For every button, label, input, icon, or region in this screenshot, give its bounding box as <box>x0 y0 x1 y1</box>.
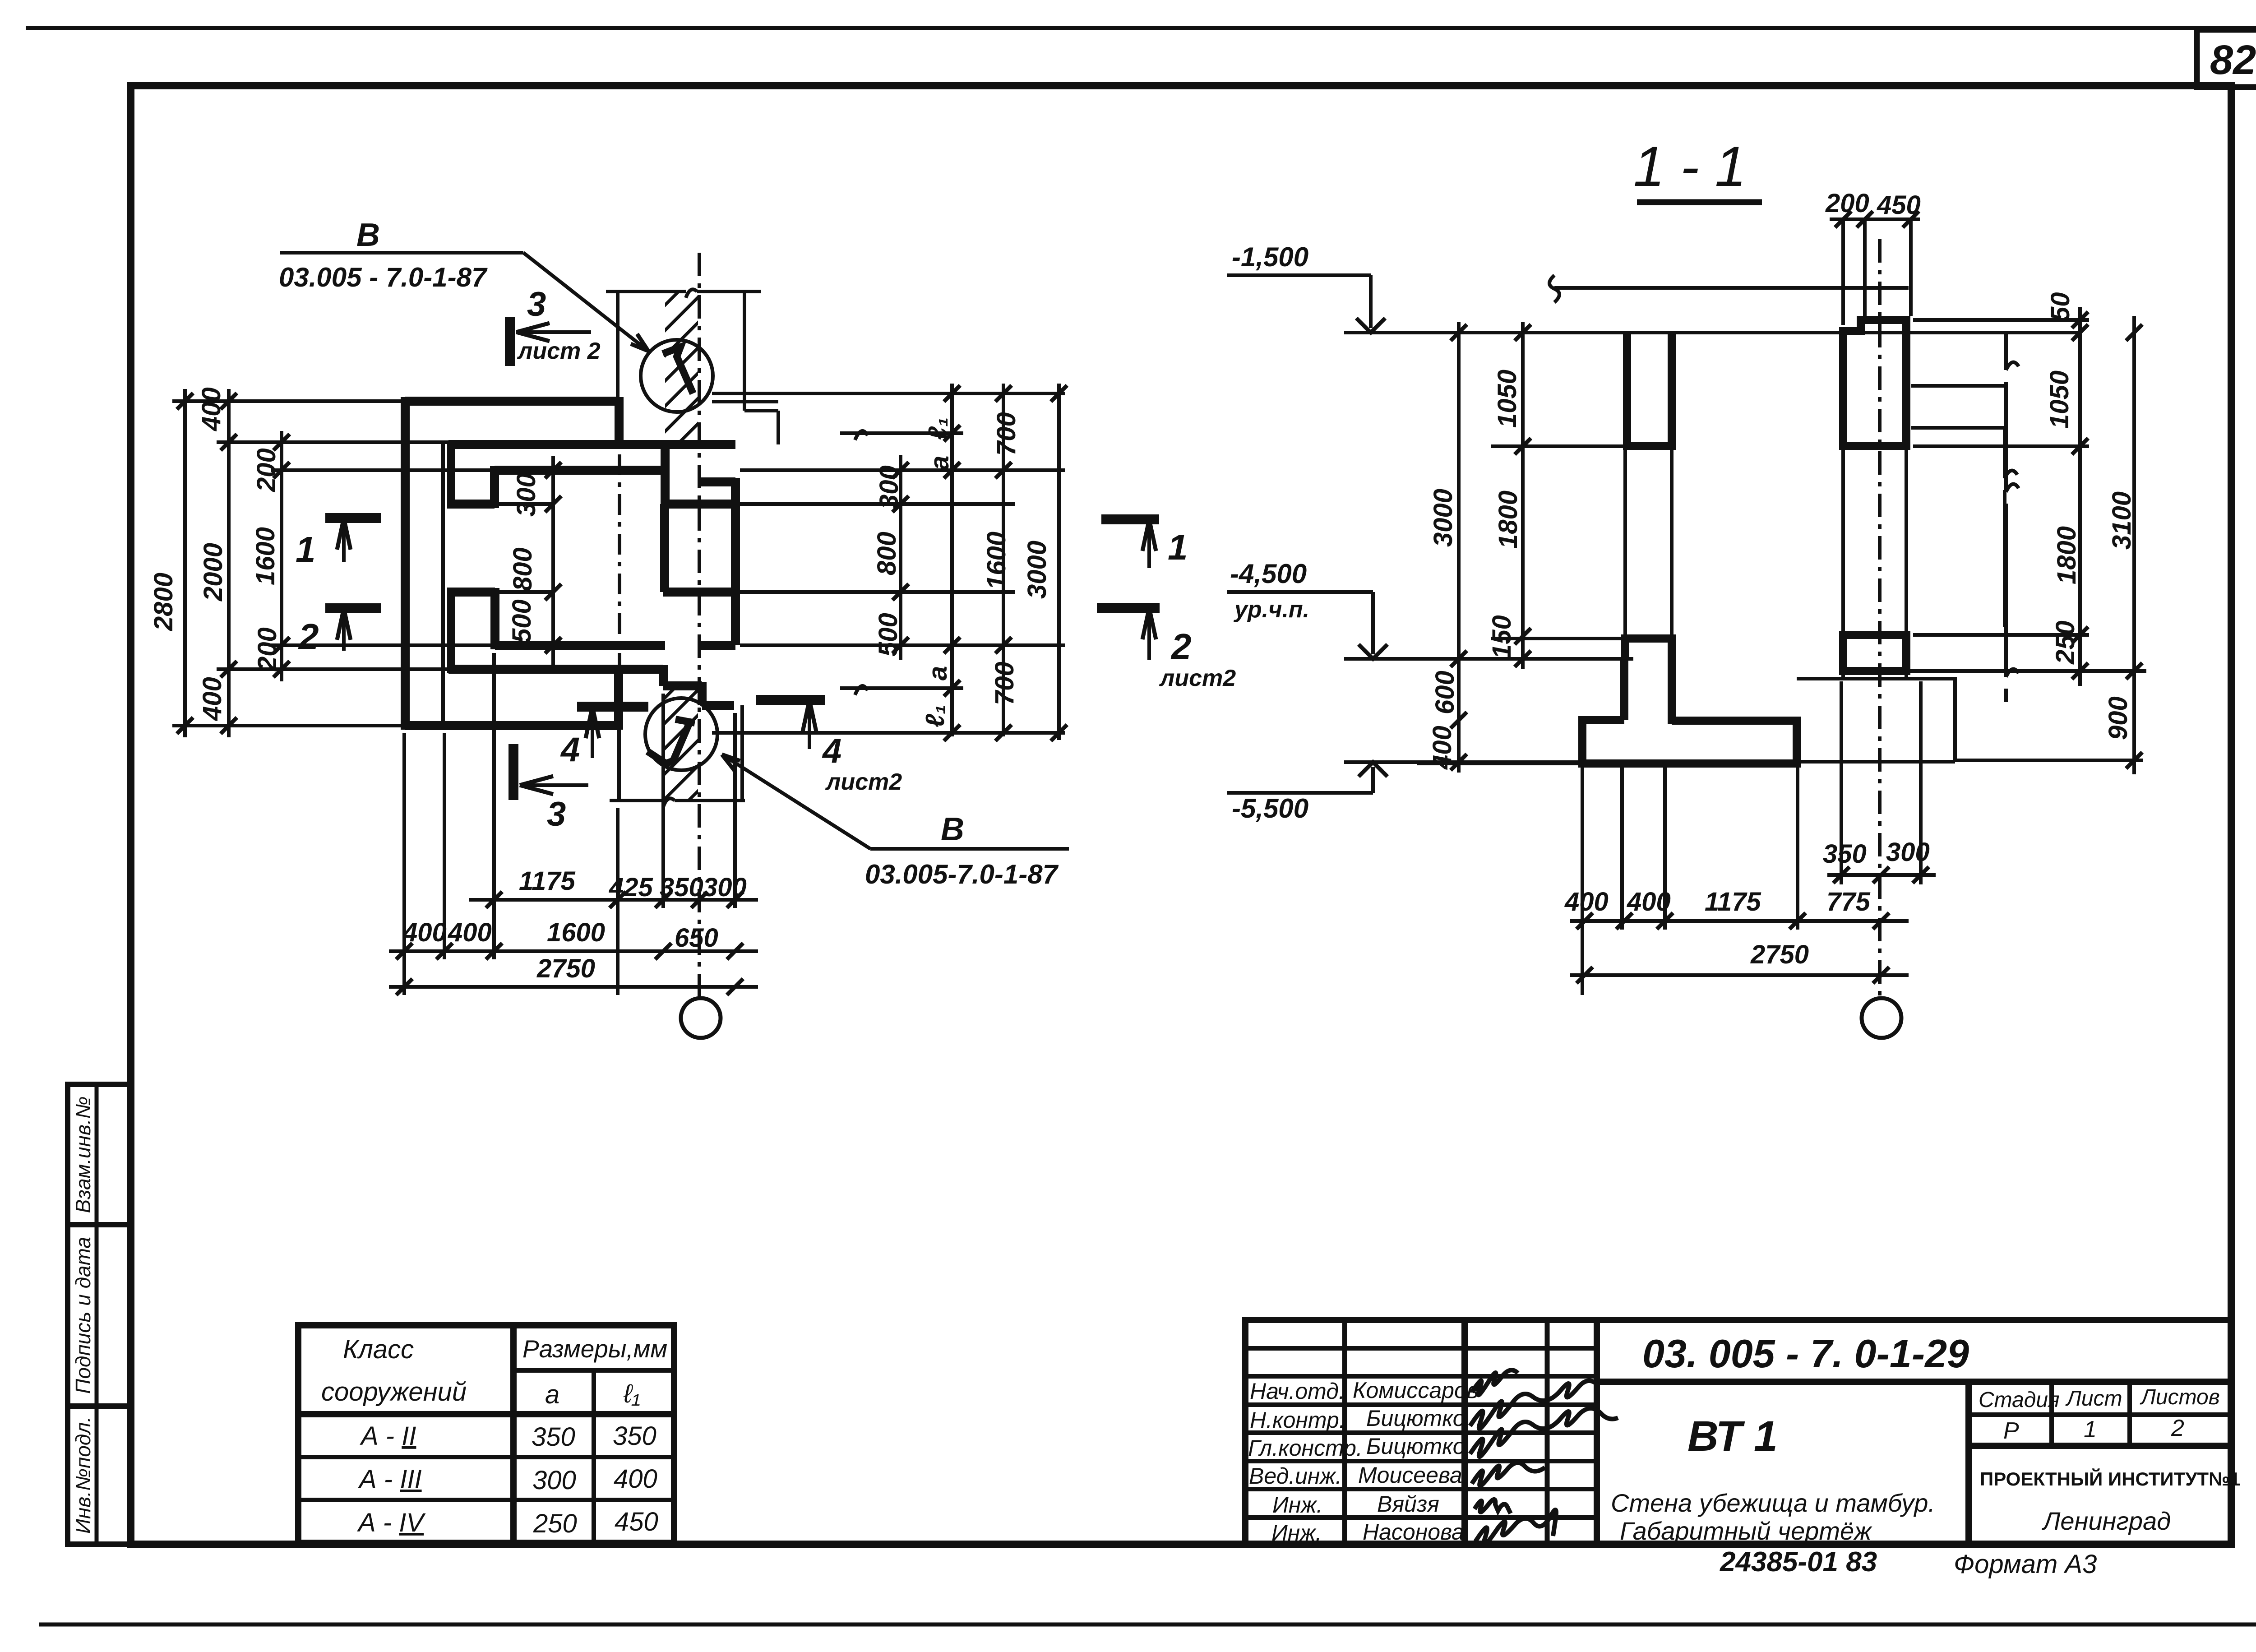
section flag 2 right <box>1097 608 1236 691</box>
section axis bubble <box>1862 998 1901 1038</box>
svg-text:2750: 2750 <box>536 954 595 983</box>
wall: jog at bottom right <box>614 668 623 730</box>
svg-text:1050: 1050 <box>2045 370 2074 429</box>
svg-text:400: 400 <box>614 1464 657 1494</box>
svg-text:ℓ₁: ℓ₁ <box>923 417 952 440</box>
svg-text:Бицютко: Бицютко <box>1366 1406 1465 1431</box>
svg-text:3: 3 <box>527 285 546 324</box>
right wall below block <box>1843 671 1906 679</box>
footing stem thick <box>1624 658 1672 724</box>
svg-text:1600: 1600 <box>547 918 605 947</box>
svg-text:3: 3 <box>547 795 566 833</box>
svg-text:1800: 1800 <box>2052 526 2081 584</box>
svg-text:Насонова: Насонова <box>1363 1519 1464 1545</box>
axis: expansion joint dash-dot <box>618 454 621 677</box>
slab top break mark <box>1549 275 1559 302</box>
svg-text:ПРОЕКТНЫЙ ИНСТИТУТ№1: ПРОЕКТНЫЙ ИНСТИТУТ№1 <box>1980 1468 2240 1490</box>
svg-text:Вед.инж.: Вед.инж. <box>1249 1463 1342 1489</box>
wall: tambour outer bottom <box>448 665 663 674</box>
ticks right chains <box>892 385 1067 741</box>
svg-text:300: 300 <box>512 473 541 517</box>
svg-text:300: 300 <box>1886 838 1930 867</box>
svg-text:82: 82 <box>2210 37 2256 83</box>
svg-text:2: 2 <box>298 616 319 657</box>
wall: right tambour bottom <box>700 641 735 650</box>
svg-text:400: 400 <box>1428 726 1457 770</box>
right side extension lines <box>712 393 1065 733</box>
horizontal rows left part <box>1245 1348 1597 1518</box>
section flag 1 right <box>1101 519 1188 568</box>
svg-text:Моисеева: Моисеева <box>1358 1462 1462 1488</box>
svg-text:А - II: А - II <box>360 1421 416 1451</box>
svg-text:700: 700 <box>990 662 1019 705</box>
signatures scrawls <box>1470 1370 1618 1545</box>
section flag 4 left <box>560 707 648 769</box>
svg-text:1175: 1175 <box>519 866 575 896</box>
right wall block at -4,500 <box>1839 635 1910 671</box>
svg-text:лист 2: лист 2 <box>517 338 601 364</box>
table frame <box>298 1325 674 1543</box>
bottom dim line 2750 <box>389 985 758 989</box>
svg-text:лист2: лист2 <box>825 769 902 795</box>
axis: wall centerline dash-dot <box>698 253 701 998</box>
extension lines left side <box>172 401 495 726</box>
section top dims 200 450 <box>1825 189 1921 325</box>
section left dim chains <box>1417 322 1625 773</box>
dim line 400/2000/400 <box>227 389 231 737</box>
svg-text:ℓ₁: ℓ₁ <box>623 1379 640 1408</box>
break squiggles <box>855 431 868 695</box>
svg-text:900: 900 <box>2103 696 2133 740</box>
wall: tambour lower jamb vertical <box>490 588 499 649</box>
broken extension line right dims <box>2003 428 2006 627</box>
svg-text:Нач.отд.: Нач.отд. <box>1250 1379 1345 1404</box>
svg-text:400: 400 <box>402 918 447 947</box>
svg-text:350: 350 <box>613 1421 656 1451</box>
right dim lines <box>899 455 902 660</box>
right wall upper block <box>1839 316 1910 446</box>
svg-text:Н.контр.: Н.контр. <box>1250 1407 1345 1433</box>
section flag 4 right <box>756 700 902 795</box>
svg-text:сооружений: сооружений <box>321 1377 467 1407</box>
plan axis bubble <box>681 998 721 1038</box>
wall edge below plan left <box>617 682 621 801</box>
wall: outer top <box>405 397 619 406</box>
adjoining slabs right of wall <box>1911 386 2006 428</box>
svg-text:2800: 2800 <box>149 573 178 631</box>
svg-text:250: 250 <box>533 1509 577 1538</box>
level line -5,500 <box>1344 760 1584 764</box>
verticals left part <box>1342 1320 1347 1544</box>
svg-text:3100: 3100 <box>2107 491 2136 550</box>
svg-text:650: 650 <box>675 923 718 953</box>
level line -4,500 <box>1344 659 2146 671</box>
detail circle B top <box>641 340 713 412</box>
svg-text:B: B <box>356 217 380 253</box>
page number box 82 <box>2197 30 2256 87</box>
waterstop profile in bottom circle <box>647 719 695 764</box>
svg-text:425: 425 <box>609 873 653 902</box>
svg-text:200: 200 <box>253 627 282 671</box>
section title 1-1 <box>1633 135 1762 202</box>
wall: tambour inner bottom <box>495 641 665 650</box>
wall: right tambour right edge <box>731 478 740 645</box>
svg-text:1600: 1600 <box>982 532 1011 590</box>
leader to top detail: label B <box>279 217 648 351</box>
svg-text:350: 350 <box>1823 839 1867 869</box>
left wall middle thin edges <box>1625 446 1672 639</box>
leader to bottom detail: label B <box>722 754 1069 889</box>
svg-text:24385-01 83: 24385-01 83 <box>1720 1546 1877 1578</box>
svg-text:1050: 1050 <box>1493 370 1522 428</box>
hatch band above plan <box>654 257 713 493</box>
svg-text:Вяйзя: Вяйзя <box>1377 1491 1439 1517</box>
svg-text:150: 150 <box>1487 615 1516 659</box>
wall edge above plan left <box>616 292 619 446</box>
svg-text:2: 2 <box>2171 1415 2184 1441</box>
right wall middle thin edges <box>1843 446 1906 635</box>
wall block upper (left wall) <box>1623 334 1676 446</box>
wall: outer bottom <box>405 721 619 730</box>
svg-text:Листов: Листов <box>2140 1385 2220 1409</box>
thin edge right tambour top <box>712 400 778 403</box>
dim line 2800 <box>183 389 187 737</box>
ticks left chains <box>177 393 290 734</box>
svg-text:4: 4 <box>822 732 841 770</box>
wall: tambour outer top <box>448 440 735 449</box>
level line -1,500 <box>1344 331 2080 334</box>
svg-text:Стена убежища и тамбур.: Стена убежища и тамбур. <box>1611 1489 1935 1517</box>
svg-text:ℓ₁: ℓ₁ <box>920 705 950 727</box>
svg-text:Габаритный чертёж: Габаритный чертёж <box>1620 1517 1872 1545</box>
svg-text:775: 775 <box>1826 887 1871 916</box>
wall: joint wall right vertical upper <box>661 444 670 504</box>
svg-text:А - IV: А - IV <box>357 1508 426 1537</box>
bottom dim line 400/400/1600/650 <box>389 949 758 953</box>
svg-text:Гл.констр.: Гл.констр. <box>1248 1435 1363 1461</box>
svg-text:Лист: Лист <box>2065 1387 2122 1411</box>
svg-text:300: 300 <box>532 1466 576 1495</box>
svg-text:Взам.инв.№: Взам.инв.№ <box>71 1097 95 1213</box>
wall: tambour inner top <box>495 466 665 475</box>
wall: tambour upper jamb step <box>447 500 495 509</box>
wall: jog at top right <box>615 397 624 444</box>
section right wall <box>1839 316 1910 671</box>
waterstop profile in top circle <box>663 347 693 393</box>
svg-text:800: 800 <box>508 547 537 591</box>
page bottom trim line <box>39 1623 2256 1627</box>
svg-text:400: 400 <box>448 918 492 947</box>
wall edge above plan right <box>744 292 778 444</box>
wall block at -4,500 (left wall) <box>1621 639 1676 660</box>
wall: joint opening left vertical <box>660 504 669 592</box>
svg-text:1600: 1600 <box>251 527 280 585</box>
section flag 3 top <box>510 285 601 366</box>
svg-text:03. 005 - 7. 0-1-29: 03. 005 - 7. 0-1-29 <box>1642 1331 1969 1376</box>
svg-text:Инж.: Инж. <box>1271 1520 1322 1546</box>
svg-text:Комиссаров: Комиссаров <box>1353 1378 1479 1403</box>
svg-text:300: 300 <box>874 465 904 509</box>
svg-text:250: 250 <box>2051 620 2080 665</box>
wall: tambour left upper <box>447 440 455 504</box>
footing outline thick <box>1582 720 1797 764</box>
svg-text:700: 700 <box>992 412 1021 456</box>
svg-text:3000: 3000 <box>1022 541 1052 599</box>
svg-text:1: 1 <box>296 529 316 569</box>
bottom dim line 1175/425/350/300 <box>469 898 758 902</box>
bottom extension lines <box>404 653 735 995</box>
svg-text:Класс: Класс <box>343 1335 414 1364</box>
below-plan strip right edge <box>740 705 744 801</box>
svg-text:-4,500: -4,500 <box>1230 559 1307 589</box>
svg-text:лист2: лист2 <box>1159 665 1236 691</box>
svg-text:400: 400 <box>1627 887 1671 916</box>
svg-text:ур.ч.п.: ур.ч.п. <box>1233 597 1309 623</box>
svg-text:500: 500 <box>507 599 536 643</box>
inner face of left outer wall <box>441 442 445 726</box>
svg-text:Инж.: Инж. <box>1272 1492 1323 1518</box>
svg-text:300: 300 <box>703 873 747 902</box>
svg-text:Бицютко: Бицютко <box>1366 1434 1465 1459</box>
svg-text:1: 1 <box>1168 527 1188 567</box>
svg-text:2: 2 <box>1170 626 1192 666</box>
svg-text:2750: 2750 <box>1750 940 1809 969</box>
slab top line <box>1554 286 1909 290</box>
page top trim line <box>26 26 2256 30</box>
svg-text:200: 200 <box>252 448 281 492</box>
ticks bottom chains <box>396 892 743 995</box>
left margin strip <box>68 1084 129 1544</box>
svg-text:400: 400 <box>198 677 227 721</box>
svg-text:Размеры,мм: Размеры,мм <box>522 1335 667 1363</box>
wall: outer left <box>401 397 410 730</box>
wall: joint opening bottom edge <box>663 588 734 597</box>
section bottom dims <box>1564 681 1936 1038</box>
section left wall <box>1582 334 1797 764</box>
wall: right tambour top <box>700 477 735 486</box>
svg-text:4: 4 <box>560 731 580 769</box>
section flag 1 left <box>296 518 381 569</box>
svg-text:500: 500 <box>874 613 903 657</box>
dim line 200/1600/200 <box>280 431 283 681</box>
section right dim chains <box>1913 292 2143 774</box>
svg-text:400: 400 <box>1564 887 1609 916</box>
svg-text:Инв.№подл.: Инв.№подл. <box>71 1416 95 1534</box>
svg-text:3000: 3000 <box>1428 489 1458 547</box>
bottom cut line of wall strip <box>610 798 745 807</box>
svg-text:1800: 1800 <box>1493 491 1523 549</box>
svg-text:2000: 2000 <box>199 543 228 602</box>
hatch band below plan <box>654 650 713 860</box>
svg-text:350: 350 <box>532 1422 575 1452</box>
svg-text:03.005 - 7.0-1-87: 03.005 - 7.0-1-87 <box>279 262 488 292</box>
svg-text:50: 50 <box>2046 292 2075 321</box>
right part dividers <box>1597 1379 2231 1385</box>
section flag 3 bottom <box>513 744 588 833</box>
axis dash-dot section wall <box>1878 239 1882 998</box>
svg-text:1175: 1175 <box>1705 887 1761 916</box>
wall: tambour lower jamb step <box>447 588 495 597</box>
svg-text:a: a <box>925 456 954 470</box>
svg-text:Стадия: Стадия <box>1979 1388 2060 1412</box>
section flag 2 left <box>298 608 381 657</box>
svg-text:Формат А3: Формат А3 <box>1954 1550 2097 1579</box>
svg-text:1 - 1: 1 - 1 <box>1633 135 1746 198</box>
svg-text:А - III: А - III <box>358 1465 422 1494</box>
svg-text:350: 350 <box>660 873 703 902</box>
wall: bottom right step down <box>663 665 734 705</box>
right footing (thin) <box>1797 679 1955 762</box>
svg-text:a: a <box>545 1380 559 1409</box>
wall: tambour left lower <box>447 588 455 673</box>
svg-text:a: a <box>923 666 952 680</box>
svg-text:ВТ 1: ВТ 1 <box>1687 1412 1778 1460</box>
svg-text:400: 400 <box>197 387 226 431</box>
svg-text:B: B <box>941 811 964 847</box>
svg-text:800: 800 <box>872 532 901 575</box>
svg-text:03.005-7.0-1-87: 03.005-7.0-1-87 <box>865 859 1059 889</box>
svg-text:-1,500: -1,500 <box>1232 242 1308 272</box>
svg-text:600: 600 <box>1430 671 1460 714</box>
svg-text:Ленинград: Ленинград <box>2042 1507 2171 1535</box>
centre chain 300/800/500 <box>551 456 555 666</box>
top cut line of wall strip <box>606 289 761 298</box>
detail circle B bottom <box>645 698 717 770</box>
svg-text:1: 1 <box>2084 1416 2097 1443</box>
svg-text:-5,500: -5,500 <box>1232 793 1308 824</box>
svg-text:Р: Р <box>2003 1418 2019 1444</box>
wall: joint opening top edge <box>663 500 734 509</box>
svg-text:Подпись и дата: Подпись и дата <box>71 1237 95 1394</box>
broken edge line right <box>2004 333 2008 702</box>
svg-text:450: 450 <box>615 1507 658 1536</box>
wall: tambour upper jamb vertical <box>490 466 499 508</box>
top step of right wall <box>1843 320 1910 331</box>
